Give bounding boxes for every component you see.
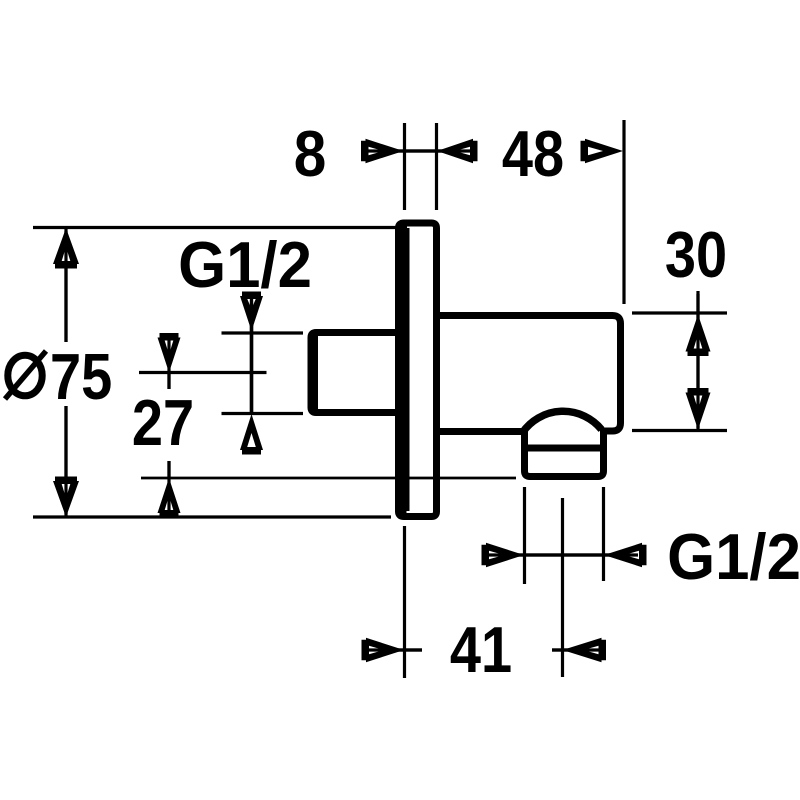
svg-text:48: 48 [502,117,564,190]
svg-text:8: 8 [294,118,327,191]
svg-text:30: 30 [665,218,727,291]
svg-text:G1/2: G1/2 [178,230,312,302]
svg-text:75: 75 [50,340,112,413]
svg-text:G1/2: G1/2 [667,522,800,594]
svg-text:41: 41 [450,613,512,686]
svg-text:27: 27 [132,386,194,459]
